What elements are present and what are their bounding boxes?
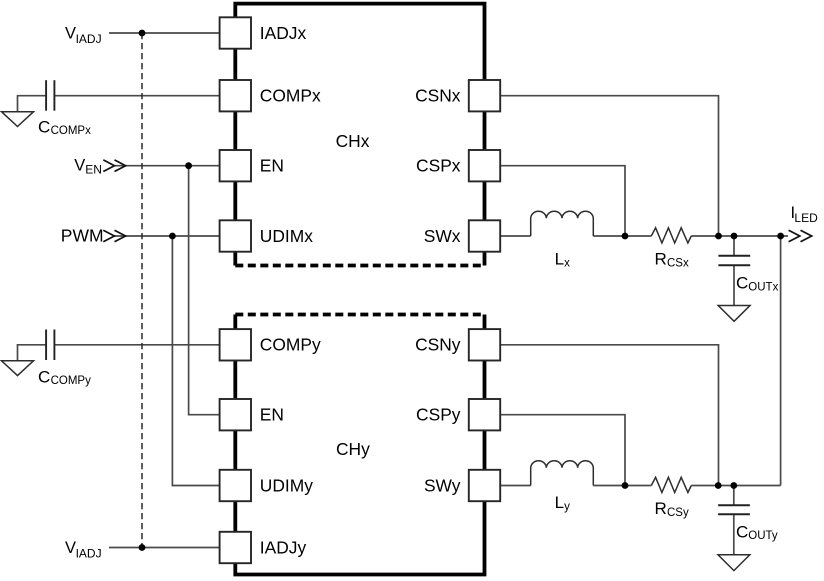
svg-text:CHx: CHx bbox=[336, 131, 370, 151]
svg-text:IADJ: IADJ bbox=[76, 32, 102, 46]
svg-text:COMPx: COMPx bbox=[260, 86, 321, 106]
svg-text:x: x bbox=[564, 257, 570, 269]
svg-text:L: L bbox=[555, 250, 564, 269]
svg-text:CSNx: CSNx bbox=[415, 86, 461, 106]
svg-text:UDIMx: UDIMx bbox=[260, 226, 313, 246]
svg-text:C: C bbox=[736, 522, 748, 541]
svg-text:COMPx: COMPx bbox=[51, 125, 92, 137]
svg-text:IADJ: IADJ bbox=[76, 547, 102, 561]
svg-text:EN: EN bbox=[260, 405, 284, 425]
svg-text:R: R bbox=[655, 250, 667, 269]
svg-text:PWM: PWM bbox=[61, 226, 104, 246]
svg-text:CSPy: CSPy bbox=[416, 405, 461, 425]
svg-text:OUTx: OUTx bbox=[748, 282, 778, 294]
svg-text:EN: EN bbox=[260, 156, 284, 176]
svg-text:C: C bbox=[38, 367, 50, 386]
svg-text:y: y bbox=[564, 501, 570, 513]
svg-text:R: R bbox=[655, 499, 667, 518]
svg-text:L: L bbox=[555, 493, 564, 512]
svg-text:CSNy: CSNy bbox=[415, 335, 461, 355]
svg-text:COMPy: COMPy bbox=[51, 375, 92, 387]
svg-text:COMPy: COMPy bbox=[260, 335, 321, 355]
svg-text:IADJy: IADJy bbox=[260, 537, 307, 557]
svg-text:CHy: CHy bbox=[336, 439, 370, 459]
svg-text:V: V bbox=[65, 24, 76, 42]
svg-text:IADJx: IADJx bbox=[260, 23, 307, 43]
svg-text:SWx: SWx bbox=[424, 226, 461, 246]
svg-text:CSy: CSy bbox=[667, 507, 689, 519]
svg-text:SWy: SWy bbox=[424, 475, 461, 495]
svg-text:UDIMy: UDIMy bbox=[260, 475, 313, 495]
svg-text:C: C bbox=[38, 117, 50, 136]
svg-text:V: V bbox=[74, 156, 85, 174]
svg-text:V: V bbox=[65, 539, 76, 557]
svg-text:CSx: CSx bbox=[667, 258, 689, 270]
svg-text:EN: EN bbox=[85, 163, 102, 177]
svg-text:LED: LED bbox=[794, 211, 818, 225]
svg-text:C: C bbox=[736, 274, 748, 293]
svg-text:CSPx: CSPx bbox=[416, 156, 461, 176]
svg-text:OUTy: OUTy bbox=[748, 530, 778, 542]
